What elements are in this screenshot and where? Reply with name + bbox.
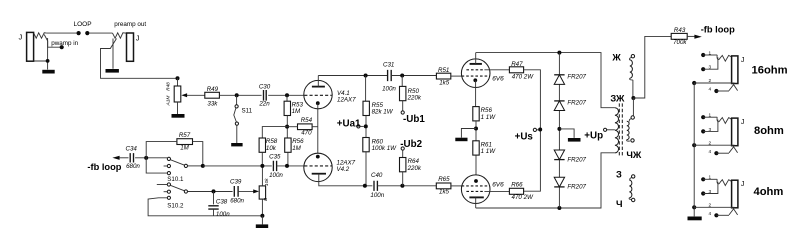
svg-text:2: 2: [708, 78, 711, 83]
node R60 bottom: [363, 184, 367, 188]
wire upper cathode to R56: [475, 80, 477, 107]
transformer core (dashed): [619, 103, 622, 155]
svg-text:2: 2: [708, 140, 711, 145]
svg-text:C35: C35: [269, 154, 281, 161]
svg-text:A1M: A1M: [165, 96, 171, 107]
jack J (16ohm) pin 2 wire: [692, 81, 696, 85]
terminal -Ub1: [401, 111, 404, 114]
svg-text:FR207: FR207: [567, 73, 586, 80]
svg-text:4: 4: [708, 211, 711, 216]
svg-text:6V6: 6V6: [492, 75, 504, 82]
svg-text:R51: R51: [438, 67, 449, 74]
resistor R58: [259, 138, 265, 152]
wire to R50: [401, 76, 403, 87]
wire pot R48 to ground: [177, 102, 179, 114]
V4.1 cathode: [316, 101, 320, 105]
upper 6V6 screen grid (dashed): [466, 69, 484, 71]
jack J (8ohm) switch chevron: [729, 147, 738, 153]
wire R47 to +Us bus: [524, 70, 541, 191]
svg-text:J: J: [19, 33, 23, 42]
wire V4.1 cathode down to V4.2 cathode: [317, 103, 319, 156]
node V4.2 grid / R56: [285, 164, 289, 168]
svg-text:C30: C30: [259, 83, 271, 90]
V4.2 plate: [312, 173, 326, 175]
node LOOP right: [85, 31, 89, 35]
svg-text:470: 470: [301, 130, 312, 137]
node bottom rail / ground: [260, 214, 264, 218]
svg-text:4ohm: 4ohm: [754, 186, 784, 198]
wire pin 1 to tip contact: [703, 116, 717, 118]
diode FR207 D4: [554, 186, 564, 188]
svg-text:C31: C31: [383, 61, 394, 68]
svg-text:+Ua1: +Ua1: [337, 118, 361, 129]
svg-text:FR207: FR207: [567, 157, 586, 164]
wire R56 to cathode node: [475, 121, 477, 141]
wire pin 3 up to contact: [703, 182, 718, 194]
lower 6V6 screen grid (dashed): [466, 190, 484, 192]
ground (6V6 cathodes): [455, 138, 467, 142]
jack J (preamp out) body: [127, 33, 134, 61]
resistor R50: [400, 86, 406, 100]
capacitor C38: [208, 206, 218, 209]
svg-text:100n: 100n: [269, 172, 283, 179]
secondary bottom coil: [630, 178, 632, 181]
wire S10.1 lower throw to C34 node: [146, 158, 167, 173]
jack J (4ohm) pin 3: [701, 191, 705, 195]
svg-text:C38: C38: [216, 198, 228, 205]
svg-text:R66: R66: [511, 182, 523, 189]
potentiometer R48 A1M body: [174, 86, 181, 102]
wire lower 6V6 plate to bottom rail: [475, 197, 477, 208]
jack J (8ohm) pin 2 wire: [692, 143, 696, 147]
resistor R49: [205, 92, 220, 98]
resistor R56: [285, 138, 291, 152]
pentode 6V6 lower envelope: [461, 175, 490, 204]
wire screen to R47: [484, 69, 509, 71]
transformer primary center tap +Up: [607, 129, 615, 131]
resistor R51: [436, 73, 450, 79]
svg-text:LOOP: LOOP: [73, 21, 91, 28]
transformer primary winding: [615, 108, 619, 153]
svg-text:100n: 100n: [216, 211, 230, 218]
svg-text:J: J: [741, 57, 745, 64]
wire R49 to C30: [219, 94, 261, 96]
capacitor C31: [388, 70, 392, 81]
lower 6V6 plate: [469, 196, 483, 198]
upper 6V6 plate: [470, 63, 482, 65]
svg-text:pwamp in: pwamp in: [51, 40, 78, 47]
svg-text:C40: C40: [371, 172, 383, 179]
wire V4.1 plate rail: [318, 75, 387, 77]
svg-text:V4.2: V4.2: [337, 166, 350, 173]
node ZhZ (feedback tap): [631, 96, 635, 100]
svg-text:220k: 220k: [407, 165, 422, 172]
V4.1 plate: [312, 86, 325, 88]
switch S10.1 group: [167, 157, 170, 160]
secondary middle coil: [631, 116, 634, 119]
wire C34 to S10.1 node: [135, 157, 167, 159]
wire C40 to R65: [377, 185, 436, 187]
capacitor C34: [130, 153, 133, 162]
svg-text:-Ub1: -Ub1: [403, 114, 425, 125]
svg-text:22n: 22n: [258, 101, 270, 108]
svg-text:1M: 1M: [292, 108, 301, 115]
svg-text:220k: 220k: [407, 95, 422, 102]
wire R53 to cathode node: [286, 116, 288, 138]
svg-text:S10.1: S10.1: [167, 176, 184, 183]
jack J (pwamp in) tip contact: [34, 33, 47, 38]
wire pin 1 to tip contact: [703, 178, 717, 180]
wire diode mid to ground: [559, 129, 574, 138]
terminal +Us: [533, 128, 536, 131]
jack J (8ohm) pin 4: [714, 151, 718, 155]
svg-text:2: 2: [708, 203, 711, 208]
resistor R47: [509, 67, 523, 73]
wire upper 6V6 plate to top rail: [475, 53, 477, 64]
capacitor C30: [264, 90, 267, 101]
resistor R60: [363, 138, 369, 152]
wire C30 to V4.1 grid: [268, 94, 304, 96]
resistor R43: [671, 33, 687, 39]
svg-text:S11: S11: [242, 108, 253, 115]
secondary top coil: [629, 57, 631, 60]
diode FR207 D3: [554, 159, 564, 161]
wire to R58: [262, 127, 287, 138]
wire R50 to -Ub1 terminal: [402, 101, 404, 111]
svg-text:1k5: 1k5: [439, 189, 450, 196]
resistor R55: [363, 101, 369, 115]
svg-text:82k 1W: 82k 1W: [372, 109, 394, 116]
ground (pot R48): [172, 114, 185, 118]
ground (left jack): [42, 70, 54, 74]
node diode string top: [557, 51, 561, 55]
svg-text:-fb loop: -fb loop: [701, 25, 735, 35]
wire pot B10k top to C35 rail node: [261, 166, 263, 186]
wire R51 to 6V6 grid: [451, 75, 462, 77]
wire pin 3 up to contact: [703, 57, 718, 69]
svg-text:Ж: Ж: [611, 52, 621, 62]
lower 6V6 control grid (dashed): [462, 185, 490, 187]
upper 6V6 cathode: [473, 78, 477, 82]
switch S11 wire from node: [236, 95, 238, 105]
wire S10.1 rail to C35: [203, 165, 272, 167]
wire C31 to R51: [391, 75, 436, 77]
wire C39 to pot wiper: [238, 190, 254, 192]
node diode string bottom: [557, 206, 561, 210]
wire pin 4 to switch chevron: [716, 152, 729, 154]
svg-text:4: 4: [708, 149, 711, 154]
resistor R56 (cathode): [473, 107, 479, 121]
svg-text:S10.2: S10.2: [167, 202, 184, 209]
svg-text:1M: 1M: [292, 145, 301, 152]
svg-text:100n: 100n: [370, 192, 384, 199]
svg-text:R49: R49: [207, 86, 219, 93]
node cathode junction: [474, 127, 478, 131]
wire R57 right to rail: [193, 142, 203, 166]
svg-text:R57: R57: [179, 132, 191, 139]
svg-text:R65: R65: [438, 176, 450, 183]
resistor R53: [286, 95, 288, 101]
ground (diode mid / +Up): [568, 138, 581, 142]
junction left jack sleeve: [46, 59, 50, 63]
wire rail to R55: [365, 76, 367, 102]
ground (bottom rail): [256, 224, 268, 228]
wire pot B10k bottom to rail: [261, 199, 263, 216]
wire pin 4 to switch chevron: [716, 214, 729, 216]
wire ZZh node to R43: [633, 36, 671, 98]
svg-text:R48: R48: [165, 82, 170, 91]
jack J (4ohm) pin 4: [714, 213, 718, 217]
node R55 top: [364, 74, 368, 78]
wire R54 right to cathode line: [312, 126, 318, 128]
svg-text:J: J: [136, 33, 140, 42]
svg-text:+Us: +Us: [515, 131, 534, 142]
svg-text:100k 1W: 100k 1W: [372, 145, 398, 152]
node C38 junction: [212, 189, 216, 193]
pot B10k wiper arrow: [253, 189, 259, 193]
wire LOOP to preamp-out jack contact: [89, 32, 113, 34]
node diode mid: [557, 127, 561, 131]
svg-text:470 2W: 470 2W: [512, 74, 534, 81]
jack J (16ohm) tip contact: [717, 55, 731, 61]
node R64 bottom: [400, 184, 404, 188]
switch S10.2 group: [167, 183, 170, 186]
svg-text:16ohm: 16ohm: [752, 64, 788, 76]
V4.1 grid (dashed): [304, 94, 331, 96]
resistor R66: [509, 188, 523, 194]
svg-text:З: З: [616, 169, 622, 179]
V4.2 cathode: [316, 155, 320, 159]
wire cathode node to ground: [461, 129, 476, 138]
wire R43 to fb arrow: [687, 35, 694, 37]
jack J (16ohm) pin 1: [701, 53, 705, 57]
wire top coil to ZhZ junction: [632, 80, 634, 98]
wire V4.1 plate to rail: [317, 76, 319, 87]
svg-text:10k: 10k: [266, 145, 277, 152]
capacitor C39: [234, 186, 238, 197]
svg-text:R43: R43: [674, 27, 686, 34]
wire ZZh node to middle secondary coil: [632, 98, 634, 116]
triode V4.1 envelope: [304, 80, 332, 108]
capacitor C35: [273, 161, 276, 171]
wire R58 to C35 rail: [261, 152, 263, 166]
pot R48 wiper arrow: [187, 94, 205, 96]
wire C38 to bottom rail: [213, 209, 215, 216]
svg-text:B: B: [263, 198, 268, 201]
svg-text:FR207: FR207: [567, 184, 586, 191]
capacitor C40: [374, 181, 377, 191]
resistor R57: [177, 139, 193, 145]
terminal -Ub2: [401, 147, 404, 150]
node pwamp in: [60, 45, 64, 49]
svg-text:FR207: FR207: [567, 99, 586, 106]
svg-text:680n: 680n: [126, 163, 140, 170]
wire R64 to lower row: [402, 172, 404, 186]
node R49/S11/C30: [235, 93, 239, 97]
resistor R61: [473, 141, 479, 155]
jack J (16ohm) body: [732, 56, 738, 84]
feedback arrow -fb loop (input): [112, 156, 119, 160]
node +Ua1: [364, 124, 368, 128]
wire R55 to +Ua1 node: [365, 116, 367, 138]
jack J (4ohm) pin 1: [701, 177, 705, 181]
jack J (16ohm) pin 4: [714, 89, 718, 93]
jack J (16ohm) pin 3: [701, 67, 705, 71]
svg-text:Ч: Ч: [616, 199, 623, 209]
svg-text:8ohm: 8ohm: [754, 125, 784, 137]
wire pin 3 up to contact: [703, 120, 718, 132]
wire R65 to lower 6V6 grid: [451, 185, 462, 187]
node R50 top: [400, 74, 404, 78]
ground (jack bus): [688, 217, 702, 221]
ground (preamp out jack): [106, 69, 119, 73]
secondary bottom coil terminal: [632, 175, 635, 178]
output jack ground bus: [693, 83, 695, 216]
feedback arrow -fb loop (output): [694, 35, 701, 39]
wire R56 to V4.2 grid rail: [287, 152, 289, 166]
wire C38 from node: [213, 191, 215, 204]
svg-text:4: 4: [708, 87, 711, 92]
potentiometer B10k body: [259, 186, 265, 199]
svg-text:ЧЖ: ЧЖ: [626, 150, 642, 160]
wire preamp out switch contact to volume pot: [101, 39, 177, 79]
upper 6V6 control grid (dashed): [462, 75, 490, 77]
resistor R64: [400, 158, 406, 172]
terminal +Ua1: [357, 125, 360, 128]
wire left jack sleeve to ground: [34, 38, 48, 70]
wire diode string: [558, 53, 560, 208]
jack J (8ohm) body: [732, 118, 738, 146]
wire -Ub2 to R64: [402, 150, 404, 157]
wire S10.2 lower throw to bottom rail: [148, 198, 260, 216]
node LOOP left: [77, 31, 81, 35]
svg-text:470 2W: 470 2W: [512, 194, 534, 201]
jack J (8ohm) pin 3: [701, 129, 705, 133]
wire screen to R66: [484, 190, 509, 192]
node +Us: [538, 128, 542, 132]
svg-text:preamp out: preamp out: [114, 21, 146, 28]
jack J (8ohm) tip contact: [717, 117, 731, 123]
jack J (4ohm) body: [732, 180, 738, 208]
node pot R48 top junction: [176, 76, 180, 80]
svg-text:C39: C39: [230, 179, 242, 186]
svg-text:1 1W: 1 1W: [481, 114, 497, 121]
svg-text:R54: R54: [301, 117, 313, 124]
node V4.1 grid / R53: [285, 93, 289, 97]
svg-text:ЗЖ: ЗЖ: [610, 93, 625, 103]
svg-text:-Ub2: -Ub2: [400, 139, 422, 150]
node C34/R57/S10.1: [144, 156, 148, 160]
jack J (4ohm) switch chevron: [729, 209, 738, 215]
diode FR207 D1: [554, 74, 564, 76]
wire C35 to V4.2 grid: [277, 165, 304, 167]
svg-text:-fb loop: -fb loop: [87, 162, 121, 172]
ground (S11): [231, 143, 242, 146]
jack J (pwamp in) body: [27, 32, 34, 61]
pentode 6V6 upper envelope: [461, 59, 490, 88]
node rail/R57: [201, 164, 205, 168]
wire pin 1 to tip contact: [703, 54, 717, 56]
svg-text:+Up: +Up: [584, 130, 603, 141]
svg-text:12AX7: 12AX7: [337, 97, 356, 104]
svg-text:R47: R47: [511, 61, 523, 68]
wire junction to pot R48: [177, 78, 179, 86]
jack J (16ohm) switch chevron: [729, 85, 738, 91]
jack J (4ohm) pin 2 wire: [692, 205, 696, 209]
wire top plate rail to transformer primary top: [476, 53, 615, 108]
svg-text:J: J: [741, 119, 745, 126]
jack J (8ohm) pin 1: [701, 115, 705, 119]
svg-text:10k: 10k: [264, 178, 270, 186]
wire V4.2 plate to lower row: [319, 174, 373, 186]
wire R57 left to C34 node: [146, 142, 177, 158]
svg-text:33k: 33k: [207, 100, 218, 107]
V4.2 grid (dashed): [304, 165, 331, 167]
svg-text:1M: 1M: [180, 145, 189, 152]
wire preamp-out ring to ground: [112, 39, 114, 69]
wire R54 left: [287, 126, 297, 128]
svg-text:1k5: 1k5: [439, 80, 450, 87]
svg-text:C34: C34: [126, 146, 138, 153]
wire to ground: [261, 216, 263, 225]
resistor R65: [436, 183, 451, 189]
wire bottom rail to transformer primary bottom: [476, 153, 615, 208]
jack J (4ohm) tip contact: [717, 179, 731, 185]
wire R61 to lower 6V6 cathode: [475, 155, 477, 180]
svg-text:1 1W: 1 1W: [481, 148, 497, 155]
triode V4.2 envelope: [304, 153, 332, 181]
wire pin 4 to switch chevron: [716, 90, 729, 92]
jack J (preamp out) tip contact: [113, 33, 127, 38]
svg-text:100n: 100n: [382, 86, 396, 93]
resistor R54: [298, 124, 313, 130]
svg-text:700k: 700k: [673, 39, 687, 46]
svg-text:J: J: [741, 181, 745, 188]
node C35 left: [260, 164, 264, 168]
wire pwamp-in switch contact stub: [44, 35, 60, 48]
node R53/R54/R56/R58: [285, 125, 289, 129]
secondary terminal Zh: [631, 55, 634, 58]
lower 6V6 cathode: [474, 179, 478, 183]
wire R60 to lower row: [365, 152, 367, 186]
diode FR207 D2: [554, 100, 564, 102]
wire tip contact to LOOP point: [47, 32, 77, 34]
svg-text:680n: 680n: [230, 197, 244, 204]
svg-text:6V6: 6V6: [492, 181, 504, 188]
switch S11: [235, 105, 238, 108]
